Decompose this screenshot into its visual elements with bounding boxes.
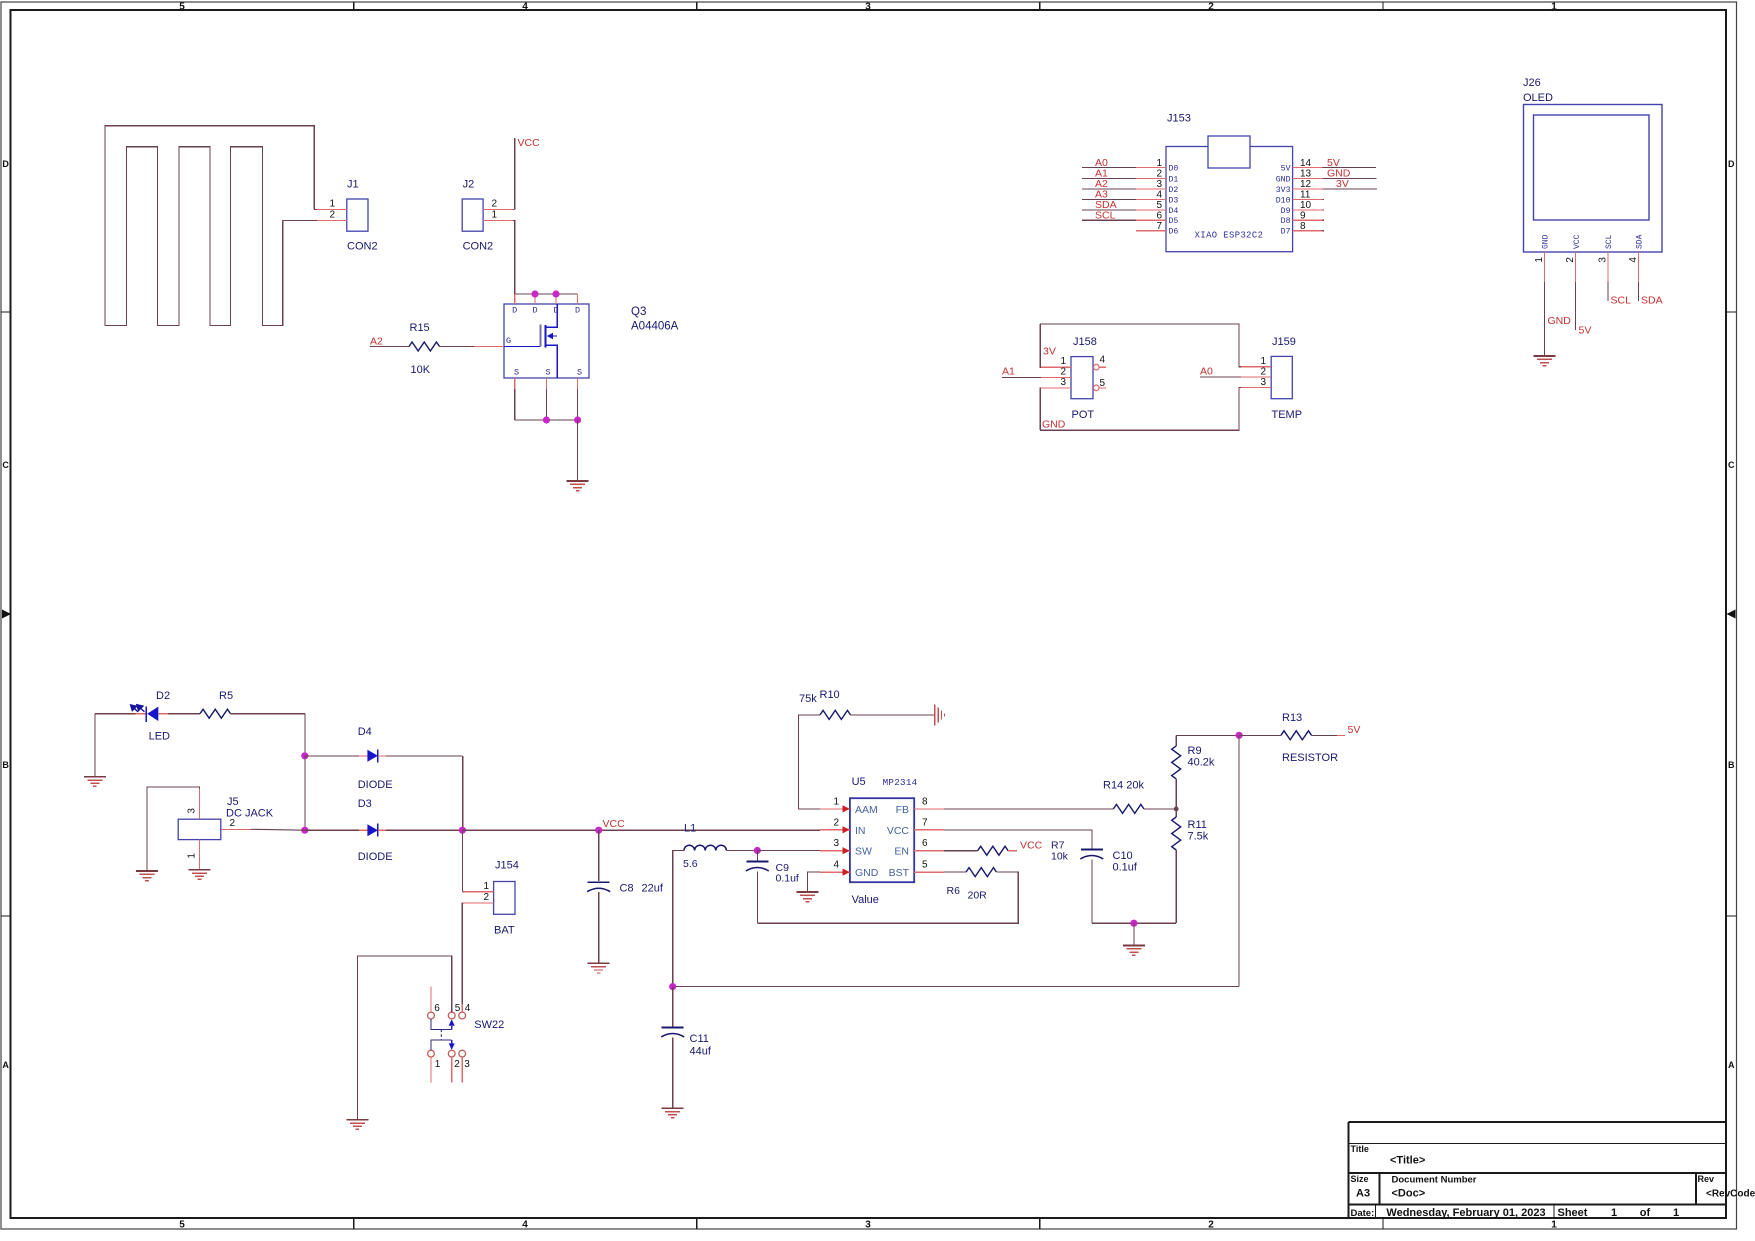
wire R5 to D4/D3 node <box>304 714 306 756</box>
svg-text:R6: R6 <box>947 885 961 897</box>
wire L1 left branch down to C11 node <box>673 851 684 987</box>
wire POT pin3 to GND rail <box>1039 388 1042 430</box>
svg-text:4: 4 <box>1100 355 1106 366</box>
wire OLED SCL <box>1607 282 1609 301</box>
svg-text:J26: J26 <box>1523 77 1541 89</box>
pin 1 of J153 <box>1082 157 1179 174</box>
pin 5 of J153 <box>1082 199 1179 216</box>
ground below C11 <box>662 1107 684 1109</box>
module J153 XIAO ESP32C2 <box>1166 147 1293 252</box>
junction drain rail <box>531 290 538 297</box>
svg-text:A: A <box>2 1060 9 1070</box>
pin 3 of J153 <box>1082 178 1179 195</box>
svg-text:A: A <box>1728 1060 1735 1070</box>
svg-text:6: 6 <box>1156 210 1162 221</box>
wire 5V node down to output rail <box>1238 735 1240 986</box>
svg-text:2: 2 <box>492 199 498 210</box>
svg-text:TEMP: TEMP <box>1272 409 1303 421</box>
wire heater meander trace <box>105 126 314 326</box>
svg-text:GND: GND <box>1276 175 1291 184</box>
svg-text:B: B <box>2 760 9 770</box>
wire U5 BST to R6 <box>944 871 966 873</box>
wire J154 pin2 down to switch <box>462 903 463 1012</box>
svg-text:7.5k: 7.5k <box>1188 831 1209 843</box>
svg-text:40.2k: 40.2k <box>1188 757 1215 769</box>
svg-text:A0: A0 <box>1200 365 1213 377</box>
svg-text:20R: 20R <box>968 890 988 902</box>
svg-text:C10: C10 <box>1113 850 1133 862</box>
svg-text:G: G <box>506 336 511 346</box>
svg-text:SDA: SDA <box>1636 234 1645 249</box>
svg-text:SCL: SCL <box>1605 234 1614 249</box>
svg-text:J2: J2 <box>463 179 475 191</box>
svg-text:GND: GND <box>1542 234 1551 249</box>
svg-text:R13: R13 <box>1282 712 1302 724</box>
svg-text:GND: GND <box>855 867 879 879</box>
svg-text:D2: D2 <box>1169 186 1179 195</box>
svg-text:D0: D0 <box>1169 165 1179 174</box>
svg-text:3: 3 <box>865 1220 871 1231</box>
pin 1 of J159 <box>1241 366 1271 368</box>
svg-text:VCC: VCC <box>603 818 626 830</box>
svg-text:2: 2 <box>1208 1220 1214 1231</box>
svg-text:D3: D3 <box>1169 196 1179 205</box>
connector J154 BAT <box>494 882 515 915</box>
svg-text:D6: D6 <box>1169 228 1179 237</box>
wire SW22 pin5 to ground rail <box>357 956 451 1120</box>
svg-text:0.1uf: 0.1uf <box>1113 862 1138 874</box>
resistor R15 <box>380 346 409 348</box>
pin 13 of J153 <box>1276 168 1377 185</box>
svg-text:J153: J153 <box>1167 113 1191 125</box>
display J26 OLED <box>1524 105 1663 253</box>
wire J5 pin3 to ground <box>147 787 200 871</box>
junction D3 left node <box>301 827 308 834</box>
pin 7 of J153 <box>1136 221 1178 237</box>
capacitor C9 <box>756 851 758 861</box>
svg-text:S: S <box>514 368 519 378</box>
svg-text:VCC: VCC <box>518 137 541 149</box>
svg-text:C: C <box>2 460 9 470</box>
svg-text:2: 2 <box>1208 1 1214 12</box>
wire U5 EN to R7 <box>944 850 977 852</box>
wire SW node to U5 pin3 <box>757 850 820 852</box>
junction D4 node <box>301 752 308 759</box>
svg-text:A1: A1 <box>1002 365 1015 377</box>
svg-text:3V3: 3V3 <box>1276 186 1291 195</box>
pin 2 of J159 <box>1241 376 1271 378</box>
power symbol VCC at J2 <box>514 138 516 210</box>
wire OLED 5V <box>1575 282 1577 330</box>
svg-text:D3: D3 <box>358 798 372 810</box>
svg-text:D: D <box>575 306 580 316</box>
svg-text:POT: POT <box>1072 409 1095 421</box>
svg-text:6: 6 <box>434 1003 440 1014</box>
border row ticks left <box>1 311 11 313</box>
svg-text:J159: J159 <box>1272 336 1296 348</box>
pin 2 of J5 <box>221 828 251 830</box>
pin 5 of U5 (BST) <box>889 860 945 880</box>
wire 3V rail POT to TEMP <box>1040 324 1241 367</box>
pin 3 of J158 <box>1041 387 1071 389</box>
title block frame <box>1348 1121 1726 1123</box>
svg-text:9: 9 <box>1300 210 1306 221</box>
svg-text:4: 4 <box>1156 190 1162 201</box>
svg-text:D5: D5 <box>1169 217 1179 226</box>
svg-text:1: 1 <box>329 199 335 210</box>
wire C9 to BST via R6 loop <box>757 872 1018 923</box>
pin S stubs of Q3 <box>514 378 516 389</box>
pin stubs of SW22 <box>430 987 432 1012</box>
pin 8 of U5 (FB) <box>896 796 945 816</box>
svg-text:5: 5 <box>1100 378 1106 389</box>
pin 3 of J5 <box>199 789 201 819</box>
pin 2 of J154 <box>464 902 494 904</box>
svg-text:Q3: Q3 <box>631 306 646 318</box>
svg-text:7: 7 <box>1156 221 1162 232</box>
svg-text:D1: D1 <box>1169 175 1179 184</box>
svg-text:J5: J5 <box>227 796 239 808</box>
svg-text:D2: D2 <box>156 690 170 702</box>
svg-text:LED: LED <box>149 731 170 743</box>
svg-text:4: 4 <box>522 1220 528 1231</box>
svg-text:2: 2 <box>454 1059 460 1070</box>
svg-text:2: 2 <box>833 817 839 828</box>
junction ground rail <box>1130 920 1137 927</box>
wire U5 GND to ground <box>808 872 821 892</box>
svg-text:Title: Title <box>1351 1144 1369 1154</box>
svg-text:D: D <box>2 159 9 169</box>
wire D2 node down to DC jack node <box>304 756 306 830</box>
svg-text:J1: J1 <box>347 179 359 191</box>
svg-text:CON2: CON2 <box>463 241 494 253</box>
wire C10 ground rail <box>1092 922 1176 924</box>
pin 1 of J2 <box>483 220 513 222</box>
svg-text:of: of <box>1640 1207 1651 1219</box>
svg-text:J154: J154 <box>495 860 519 872</box>
svg-text:GND: GND <box>1548 315 1572 327</box>
svg-text:Document Number: Document Number <box>1392 1175 1477 1186</box>
svg-text:C: C <box>1728 460 1735 470</box>
svg-text:<Doc>: <Doc> <box>1392 1188 1426 1200</box>
svg-text:5V: 5V <box>1579 325 1592 337</box>
svg-text:U5: U5 <box>852 776 866 788</box>
pin 4 of J158 <box>1094 364 1100 370</box>
pin 1 of J154 <box>464 891 494 893</box>
svg-text:Value: Value <box>852 894 879 906</box>
pin 11 of J153 <box>1276 190 1324 206</box>
svg-text:A04406A: A04406A <box>631 321 679 333</box>
wire A0 to TEMP pin2 <box>1200 376 1241 378</box>
svg-text:D: D <box>1728 159 1735 169</box>
svg-text:3V: 3V <box>1043 346 1056 358</box>
svg-text:EN: EN <box>894 846 909 858</box>
svg-text:VCC: VCC <box>1573 234 1582 249</box>
svg-text:75k: 75k <box>799 693 817 705</box>
svg-text:D10: D10 <box>1276 196 1291 205</box>
pin 6 of U5 (EN) <box>894 838 944 858</box>
svg-text:OLED: OLED <box>1523 92 1553 104</box>
wire output rail C11 to R13 node <box>673 986 1239 988</box>
connector J159 TEMP <box>1271 356 1292 398</box>
svg-text:8: 8 <box>922 796 928 807</box>
pin 14 of J153 <box>1281 157 1376 174</box>
wire A1 to POT pin2 <box>1002 377 1041 379</box>
svg-text:1: 1 <box>1534 257 1545 263</box>
junction FB divider <box>1174 807 1179 812</box>
svg-text:S: S <box>545 368 550 378</box>
svg-text:VCC: VCC <box>1020 840 1043 852</box>
svg-text:BST: BST <box>889 867 910 879</box>
pin 3 of J159 <box>1241 386 1271 388</box>
pin 2 of J1 <box>317 220 347 222</box>
svg-text:1: 1 <box>1551 1220 1557 1231</box>
svg-text:4: 4 <box>1628 257 1639 263</box>
svg-text:D7: D7 <box>1281 228 1291 237</box>
wire GND rail POT to TEMP <box>1040 387 1241 430</box>
pin 6 of J153 <box>1082 209 1179 226</box>
svg-text:<Title>: <Title> <box>1390 1155 1425 1167</box>
svg-text:8: 8 <box>1300 221 1306 232</box>
svg-text:XIAO ESP32C2: XIAO ESP32C2 <box>1195 231 1264 241</box>
svg-text:3: 3 <box>865 1 871 12</box>
svg-text:2: 2 <box>1156 169 1162 180</box>
svg-text:BAT: BAT <box>494 925 515 937</box>
svg-text:D: D <box>512 306 517 316</box>
junction D3 right node <box>459 827 466 834</box>
svg-text:6: 6 <box>922 838 928 849</box>
svg-text:3: 3 <box>1060 377 1066 388</box>
svg-text:1: 1 <box>1156 158 1162 169</box>
svg-text:3: 3 <box>1156 179 1162 190</box>
wire R9 top to R13 node <box>1176 734 1239 736</box>
svg-text:2: 2 <box>1060 366 1066 377</box>
svg-text:B: B <box>1728 760 1735 770</box>
resistor R7 <box>978 846 1008 855</box>
svg-text:10k: 10k <box>1051 851 1069 863</box>
svg-text:13: 13 <box>1300 169 1312 180</box>
svg-text:R5: R5 <box>219 690 233 702</box>
ground at SW22 <box>346 1119 368 1121</box>
wire Q3 drain top rail <box>515 293 578 295</box>
svg-text:<RevCode>: <RevCode> <box>1706 1189 1755 1200</box>
ground at divider <box>1133 923 1135 945</box>
connector J5 DC JACK <box>178 819 221 839</box>
svg-text:2: 2 <box>329 210 335 221</box>
switch SW22 contacts symbol <box>431 1019 452 1030</box>
svg-text:1: 1 <box>435 1059 441 1070</box>
wire D4 to BAT rail <box>462 756 464 830</box>
svg-text:D4: D4 <box>358 726 372 738</box>
pin 2 of J26 <box>1565 234 1582 282</box>
border row ticks right <box>1726 311 1737 313</box>
ground at J5 pin1 <box>189 869 211 871</box>
svg-text:4: 4 <box>522 1 528 12</box>
wire J5 pin2 to D3 <box>251 828 305 831</box>
svg-text:5V: 5V <box>1348 724 1361 736</box>
pin 4 of J26 <box>1628 234 1645 282</box>
svg-text:D: D <box>553 306 558 316</box>
svg-text:3: 3 <box>833 838 839 849</box>
svg-text:C8: C8 <box>620 883 634 895</box>
svg-text:1: 1 <box>1673 1207 1679 1219</box>
svg-text:Sheet: Sheet <box>1558 1207 1588 1219</box>
svg-text:MP2314: MP2314 <box>883 777 918 788</box>
wire L1 to SW node <box>726 850 757 852</box>
pin 2 of J2 <box>483 209 513 211</box>
svg-text:0.1uf: 0.1uf <box>776 873 799 885</box>
svg-text:R15: R15 <box>410 322 430 334</box>
svg-text:3: 3 <box>464 1059 470 1070</box>
border column ticks top <box>353 2 355 10</box>
wire U5 VCC to C10 <box>944 830 1092 849</box>
svg-text:3: 3 <box>1597 257 1608 263</box>
wire U5 FB to R14 <box>944 808 1113 810</box>
svg-text:S: S <box>577 368 582 378</box>
svg-text:1: 1 <box>187 853 198 859</box>
border center arrow right <box>1727 610 1736 619</box>
svg-text:CON2: CON2 <box>347 241 378 253</box>
border center arrow left <box>2 610 11 619</box>
svg-text:5: 5 <box>179 1 185 12</box>
pin 5 of J158 <box>1094 385 1100 391</box>
wire meander to J1 pin1 <box>314 209 317 211</box>
svg-text:7: 7 <box>922 817 928 828</box>
wire J2 pin1 to Q3 drain rail <box>513 221 515 294</box>
svg-text:D8: D8 <box>1281 217 1291 226</box>
pin 1 of U5 (AAM) <box>820 796 878 816</box>
transistor Q3 <box>504 304 589 378</box>
ground at LED <box>94 714 96 777</box>
svg-text:DIODE: DIODE <box>358 779 393 791</box>
pin 4 of U5 (GND) <box>820 860 879 880</box>
svg-text:5.6: 5.6 <box>683 858 698 870</box>
ground at U5 GND <box>797 891 819 893</box>
ground below C8 <box>588 962 610 964</box>
junction 5V node <box>1236 732 1243 739</box>
ground below OLED <box>1534 355 1556 357</box>
pin 12 of J153 <box>1276 178 1377 195</box>
svg-text:11: 11 <box>1300 190 1311 201</box>
resistor R6 <box>966 868 996 877</box>
pin 1 of J158 <box>1041 366 1071 368</box>
svg-text:L1: L1 <box>684 823 696 835</box>
capacitor C11 <box>672 987 674 1027</box>
svg-text:SW22: SW22 <box>474 1019 504 1031</box>
svg-text:14: 14 <box>1300 158 1312 169</box>
regulator U5 MP2314 <box>850 798 914 882</box>
svg-text:10K: 10K <box>411 364 431 376</box>
pin 3 of U5 (SW) <box>820 838 872 858</box>
svg-text:Rev: Rev <box>1698 1174 1715 1184</box>
connector J1 <box>347 199 368 231</box>
svg-text:C11: C11 <box>690 1033 709 1045</box>
svg-text:3V: 3V <box>1336 178 1349 190</box>
border column ticks bottom <box>353 1218 355 1229</box>
svg-text:3: 3 <box>187 808 198 814</box>
pin G stub of Q3 <box>474 346 504 348</box>
pin 8 of J153 <box>1281 221 1324 237</box>
ground rotated at R10 <box>934 704 936 725</box>
ground below Q3 <box>577 420 579 481</box>
svg-text:DIODE: DIODE <box>358 851 393 863</box>
svg-text:IN: IN <box>855 825 866 837</box>
svg-text:12: 12 <box>1300 179 1312 190</box>
pin 2 of J158 <box>1041 377 1071 379</box>
pin 3 of J26 <box>1597 234 1614 282</box>
wire OLED SDA <box>1637 282 1639 301</box>
ground at J5 pin3 <box>136 870 158 872</box>
svg-text:10: 10 <box>1300 200 1312 211</box>
pin 1 of J5 <box>199 840 201 870</box>
LED emission arrows <box>131 705 145 712</box>
pin 1 of J1 <box>317 209 347 211</box>
junction C11 <box>669 983 676 990</box>
svg-text:Wednesday, February 01, 2023: Wednesday, February 01, 2023 <box>1386 1207 1545 1219</box>
junction VCC C8 <box>595 827 602 834</box>
wire meander to J1 pin2 <box>283 220 317 222</box>
svg-text:D9: D9 <box>1281 207 1291 216</box>
svg-text:AAM: AAM <box>855 804 878 816</box>
svg-text:2: 2 <box>1565 257 1576 263</box>
svg-text:D4: D4 <box>1169 207 1179 216</box>
svg-text:1: 1 <box>483 881 489 892</box>
svg-text:A3: A3 <box>1356 1188 1370 1200</box>
connector J2 <box>462 199 483 231</box>
svg-text:Date:: Date: <box>1351 1208 1375 1219</box>
svg-text:2: 2 <box>1260 366 1266 377</box>
svg-text:1: 1 <box>1551 1 1557 12</box>
svg-text:1: 1 <box>833 796 839 807</box>
svg-text:FB: FB <box>896 804 909 816</box>
wire OLED GND <box>1544 282 1546 356</box>
capacitor C8 <box>598 830 600 881</box>
pin 1 of J26 <box>1534 234 1551 282</box>
pin 9 of J153 <box>1281 210 1324 226</box>
svg-text:1: 1 <box>492 210 498 221</box>
svg-text:R10: R10 <box>820 689 840 701</box>
junction source rail <box>543 416 550 423</box>
wire U5 AAM to R10 <box>798 715 820 809</box>
svg-text:2: 2 <box>483 892 489 903</box>
svg-text:5: 5 <box>179 1220 185 1231</box>
svg-text:22uf: 22uf <box>642 883 664 895</box>
pin 2 of U5 (IN) <box>820 817 866 837</box>
svg-text:5: 5 <box>922 860 928 871</box>
svg-text:44uf: 44uf <box>690 1046 712 1058</box>
pin 10 of J153 <box>1281 200 1324 216</box>
svg-text:4: 4 <box>833 860 839 871</box>
svg-text:VCC: VCC <box>887 825 910 837</box>
wire D3 node down to J154 <box>461 830 463 892</box>
svg-text:SCL: SCL <box>1095 209 1116 221</box>
pin D stubs of Q3 <box>514 294 516 304</box>
svg-text:RESISTOR: RESISTOR <box>1282 752 1338 764</box>
pin 2 of J153 <box>1082 168 1179 185</box>
svg-text:4: 4 <box>465 1003 471 1014</box>
pin 4 of J153 <box>1082 189 1179 206</box>
svg-text:A2: A2 <box>370 336 383 348</box>
svg-text:2: 2 <box>230 818 236 829</box>
svg-text:3: 3 <box>1260 377 1266 388</box>
capacitor C10 <box>1081 849 1103 851</box>
junction SW C9 <box>754 847 761 854</box>
svg-text:1: 1 <box>1611 1207 1617 1219</box>
svg-text:GND: GND <box>1042 419 1066 431</box>
wire main VCC rail <box>462 829 598 831</box>
svg-text:SCL: SCL <box>1611 295 1632 307</box>
svg-text:R9: R9 <box>1188 745 1202 757</box>
